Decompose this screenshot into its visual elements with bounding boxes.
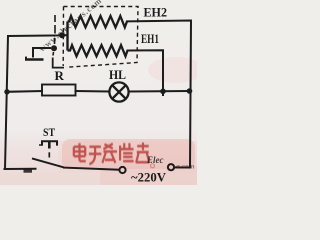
svg-text:Elec: Elec [146, 155, 164, 165]
svg-text:R: R [55, 68, 65, 83]
heater bracket [66, 22, 68, 51]
wire: R / HL horizontal [7, 90, 42, 93]
switch ST button bar foot [39, 144, 43, 146]
svg-text:~220V: ~220V [131, 169, 167, 184]
node: junction dot left vertical x R wire [4, 89, 9, 94]
thermostat blade [33, 48, 51, 58]
switch ST plunger stem [48, 142, 51, 149]
watermark pink band bottom [58, 141, 197, 173]
svg-text:EH1: EH1 [141, 31, 159, 46]
resistor EH1 (heating element) [68, 45, 128, 56]
node: junction dot EH1 x HL wire [160, 89, 166, 95]
svg-text:ST: ST [43, 125, 55, 139]
wire: R box to lamp [76, 90, 109, 93]
switch ST button bar [42, 141, 57, 145]
svg-text:a.com: a.com [176, 162, 195, 171]
watermark smudge bottom left [24, 170, 33, 173]
switch ST plunger dashed link [48, 152, 50, 157]
terminal left (circle) [119, 167, 125, 173]
svg-text:EH2: EH2 [144, 4, 168, 19]
wire: EH2 right end to top right corner and right vertical down [127, 21, 191, 168]
watermark small red ring [151, 164, 155, 168]
wire: left vertical from top corner to bottom corner [5, 36, 8, 169]
terminal right (circle) [168, 164, 174, 170]
resistor EH2 (heating element) [68, 16, 128, 27]
svg-text:HL: HL [109, 67, 126, 82]
lamp HL [109, 82, 128, 101]
watermark pink glow behind characters [62, 139, 195, 169]
node: junction dot at bracket feed [59, 32, 65, 38]
wire: bottom from corner to switch contact [5, 168, 36, 170]
thermostat dashed actuating line [53, 15, 55, 56]
thermostat plate end nub [25, 57, 27, 60]
resistor R (box) [42, 85, 76, 96]
wire: switch blade to left terminal [64, 168, 119, 170]
watermark pink blob top right [148, 57, 204, 83]
wire: EH1 right end down to HL wire [128, 50, 164, 95]
paper background [0, 0, 197, 185]
wire: lamp to right vertical [130, 90, 191, 93]
wire: top-left horizontal to heater bracket [8, 34, 67, 37]
watermark diagonal red text www.elecfans.com [37, 0, 104, 54]
switch ST blade [32, 158, 64, 167]
watermark red chinese characters (drawn) [74, 143, 149, 165]
dashed enclosure box of heating elements [63, 7, 138, 68]
thermostat fixed plate [25, 58, 44, 61]
thermostat link elbow to heater box [53, 58, 64, 68]
node: junction dot right vertical x HL wire [187, 88, 193, 94]
thermostat contact dot [51, 45, 57, 51]
